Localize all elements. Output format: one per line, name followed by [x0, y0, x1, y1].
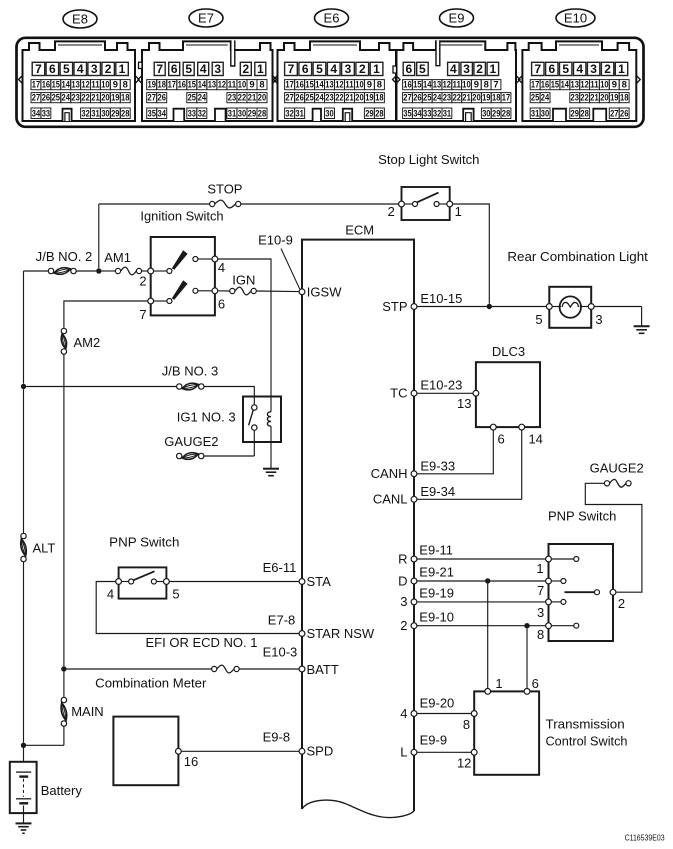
svg-text:6: 6	[548, 62, 555, 76]
svg-text:28: 28	[502, 107, 510, 118]
svg-text:15: 15	[52, 79, 60, 90]
svg-text:29: 29	[571, 107, 579, 118]
wire SPD	[181, 750, 299, 752]
svg-text:7: 7	[156, 62, 163, 76]
svg-text:31: 31	[531, 107, 539, 118]
svg-text:AM2: AM2	[74, 335, 101, 350]
svg-text:20: 20	[472, 92, 480, 103]
svg-text:GAUGE2: GAUGE2	[164, 434, 218, 449]
svg-text:33: 33	[42, 107, 50, 118]
TCS pin 12	[471, 749, 477, 755]
svg-text:18: 18	[375, 92, 383, 103]
svg-text:6: 6	[49, 62, 56, 76]
relay switch blade	[249, 410, 254, 425]
svg-text:E10-23: E10-23	[420, 377, 462, 392]
svg-text:17: 17	[531, 79, 539, 90]
svg-text:2: 2	[476, 62, 483, 76]
svg-text:22: 22	[580, 92, 588, 103]
svg-text:CANL: CANL	[373, 492, 408, 507]
svg-text:18: 18	[158, 79, 166, 90]
svg-text:13: 13	[433, 79, 441, 90]
wire IGN to IGSW	[256, 290, 299, 293]
svg-text:15: 15	[188, 79, 196, 90]
battery box	[10, 762, 37, 813]
wire 2 junction to TCS pin 6	[526, 628, 528, 688]
svg-text:34: 34	[32, 107, 41, 118]
svg-text:E10-9: E10-9	[258, 232, 293, 247]
svg-text:30: 30	[325, 107, 333, 118]
svg-text:6: 6	[497, 432, 504, 447]
svg-text:32: 32	[81, 107, 89, 118]
svg-text:12: 12	[580, 79, 588, 90]
svg-text:13: 13	[325, 79, 333, 90]
svg-text:23: 23	[571, 92, 579, 103]
svg-text:32: 32	[285, 107, 293, 118]
wire GAUGE2 horizontal	[204, 455, 254, 457]
ignition switch pin 4	[212, 256, 218, 262]
svg-text:34: 34	[158, 107, 167, 118]
svg-text:11: 11	[345, 79, 353, 90]
svg-text:15: 15	[305, 79, 313, 90]
svg-text:BATT: BATT	[307, 662, 339, 677]
svg-text:STAR NSW: STAR NSW	[307, 626, 375, 641]
svg-text:5: 5	[172, 586, 179, 601]
svg-text:4: 4	[330, 62, 337, 76]
svg-text:C116539E03: C116539E03	[625, 833, 665, 842]
svg-text:IGSW: IGSW	[307, 284, 342, 299]
svg-text:L: L	[400, 745, 407, 760]
svg-text:31: 31	[295, 107, 303, 118]
svg-text:7: 7	[493, 79, 498, 90]
DLC3 pin 14	[519, 424, 525, 430]
svg-text:10: 10	[238, 79, 246, 90]
svg-text:24: 24	[315, 92, 324, 103]
svg-text:1: 1	[119, 62, 126, 76]
wire	[102, 270, 116, 272]
svg-text:3: 3	[463, 62, 470, 76]
fuse AM1	[115, 268, 120, 273]
svg-text:3: 3	[590, 62, 597, 76]
svg-text:IG1 NO. 3: IG1 NO. 3	[177, 409, 236, 424]
svg-text:3: 3	[214, 62, 221, 76]
PNP switch right box	[549, 544, 614, 641]
wire ignition pin4 to relay coil	[218, 259, 271, 412]
wire STA	[169, 581, 299, 583]
svg-text:23: 23	[71, 92, 79, 103]
ECM terminal 4	[411, 711, 417, 717]
svg-text:26: 26	[620, 107, 628, 118]
svg-text:5: 5	[185, 62, 192, 76]
DLC3 box	[476, 362, 540, 427]
svg-text:8: 8	[463, 717, 470, 732]
svg-text:2: 2	[242, 62, 249, 76]
fuse STOP	[210, 201, 215, 206]
svg-text:18: 18	[492, 92, 500, 103]
svg-text:23: 23	[228, 92, 236, 103]
wire bottom junction horizontal	[24, 744, 64, 746]
svg-text:E6-11: E6-11	[263, 560, 297, 575]
svg-text:20: 20	[355, 92, 363, 103]
svg-text:E9-19: E9-19	[419, 586, 454, 601]
svg-text:7: 7	[288, 62, 295, 76]
wire to ignition switch pin 2	[142, 270, 148, 272]
svg-text:E6: E6	[324, 11, 340, 26]
svg-text:8: 8	[484, 79, 489, 90]
ECM terminal D	[411, 578, 417, 584]
connector E6 housing	[278, 41, 397, 121]
svg-text:E8: E8	[72, 12, 88, 27]
wire MAIN to bottom junction	[63, 726, 65, 745]
fusible link AM2	[61, 328, 66, 333]
svg-text:24: 24	[433, 92, 442, 103]
svg-text:9: 9	[612, 79, 617, 90]
svg-text:D: D	[398, 573, 407, 588]
connector E9 label ellipse	[440, 9, 474, 27]
svg-text:22: 22	[453, 92, 461, 103]
svg-text:33: 33	[188, 107, 196, 118]
wire ignition pin7 to AM2	[64, 301, 148, 328]
svg-text:4: 4	[218, 260, 225, 275]
svg-text:24: 24	[541, 92, 550, 103]
ground under IG1 NO.3 relay	[263, 468, 279, 470]
stop light switch SW1 box	[402, 187, 450, 220]
svg-text:3: 3	[345, 62, 352, 76]
battery to ground	[23, 806, 25, 824]
svg-text:Battery: Battery	[41, 783, 83, 798]
svg-text:21: 21	[345, 92, 353, 103]
ground stub	[641, 307, 643, 327]
svg-text:IGN: IGN	[232, 273, 255, 288]
svg-text:1: 1	[490, 62, 497, 76]
svg-text:STOP: STOP	[207, 181, 242, 196]
svg-text:E10-3: E10-3	[263, 645, 298, 660]
wire coil to ground	[270, 426, 272, 468]
svg-text:STA: STA	[307, 574, 332, 589]
svg-text:Rear Combination Light: Rear Combination Light	[507, 249, 648, 264]
ECM terminal 3	[411, 599, 417, 605]
svg-text:MAIN: MAIN	[71, 704, 104, 719]
svg-text:CANH: CANH	[371, 466, 408, 481]
svg-text:25: 25	[52, 92, 60, 103]
svg-text:20: 20	[258, 92, 266, 103]
svg-text:E9-34: E9-34	[420, 484, 455, 499]
svg-text:14: 14	[528, 432, 542, 447]
wire relay to GAUGE2	[253, 430, 255, 456]
ECM terminal TC	[411, 390, 417, 396]
rear combination light box	[549, 287, 591, 328]
wire CANL to DLC3 pin 14	[417, 430, 522, 499]
svg-text:12: 12	[443, 79, 451, 90]
svg-text:4: 4	[77, 62, 84, 76]
wire CANH to DLC3 pin 6	[417, 430, 493, 474]
ECM terminal IGSW	[299, 289, 305, 295]
svg-text:6: 6	[218, 297, 225, 312]
svg-text:1: 1	[618, 62, 625, 76]
svg-text:10: 10	[462, 79, 470, 90]
svg-text:2: 2	[604, 62, 611, 76]
svg-text:GAUGE2: GAUGE2	[590, 461, 644, 476]
svg-text:4: 4	[200, 62, 207, 76]
svg-text:28: 28	[258, 107, 266, 118]
wire STP to rear combination light	[417, 306, 547, 308]
svg-text:8: 8	[622, 79, 627, 90]
svg-text:17: 17	[285, 79, 293, 90]
svg-text:27: 27	[610, 107, 618, 118]
svg-text:34: 34	[413, 107, 422, 118]
svg-text:17: 17	[502, 92, 510, 103]
wire D junction to TCS pin 1	[487, 584, 489, 689]
ignition switch pin 7	[148, 298, 154, 304]
svg-text:30: 30	[482, 107, 490, 118]
svg-text:7: 7	[139, 307, 146, 322]
relay coil IG1 NO.3	[267, 412, 271, 426]
svg-text:23: 23	[443, 92, 451, 103]
PNP right pin 3	[546, 599, 552, 605]
wire stop switch to STP	[453, 204, 490, 304]
connector E8 housing	[23, 41, 136, 121]
ignition switch blade AM1-IG	[172, 250, 188, 270]
svg-text:13: 13	[71, 79, 79, 90]
fuse EFI/BATT	[212, 666, 217, 671]
ground battery	[16, 822, 32, 824]
ECM terminal STA	[299, 579, 305, 585]
connector E7 pin numbers	[154, 62, 165, 75]
svg-text:10: 10	[101, 79, 109, 90]
svg-text:6: 6	[171, 62, 178, 76]
svg-text:9: 9	[249, 79, 254, 90]
ECM terminal STAR NSW	[299, 631, 305, 637]
wire 3 to PNP pin 3	[417, 601, 546, 603]
wire left vertical upper	[23, 271, 25, 384]
svg-text:E9-11: E9-11	[419, 543, 453, 558]
PNP left pin 5	[164, 579, 170, 585]
svg-text:29: 29	[365, 107, 373, 118]
svg-text:Stop Light Switch: Stop Light Switch	[378, 152, 479, 167]
svg-text:24: 24	[62, 92, 71, 103]
svg-text:28: 28	[121, 107, 129, 118]
svg-text:4: 4	[450, 62, 457, 76]
ECM terminal 2	[411, 623, 417, 629]
svg-text:4: 4	[400, 706, 407, 721]
svg-text:12: 12	[335, 79, 343, 90]
svg-text:25: 25	[423, 92, 431, 103]
svg-text:EFI OR ECD NO. 1: EFI OR ECD NO. 1	[146, 635, 258, 650]
svg-text:J/B NO. 2: J/B NO. 2	[36, 249, 93, 264]
svg-text:6: 6	[532, 676, 539, 691]
svg-text:1: 1	[257, 62, 264, 76]
fusible link MAIN	[61, 697, 66, 702]
connector E8 label ellipse	[63, 10, 97, 28]
ECM terminal BATT	[299, 666, 305, 672]
svg-text:Ignition Switch: Ignition Switch	[140, 208, 223, 223]
svg-text:6: 6	[302, 62, 309, 76]
wire stop branch vertical	[98, 204, 100, 268]
svg-text:E10-15: E10-15	[420, 291, 462, 306]
DLC3 pin 13	[473, 390, 479, 396]
ECM terminal CANH	[411, 471, 417, 477]
svg-text:1: 1	[373, 62, 380, 76]
fusible link J/B NO. 2	[48, 268, 53, 273]
wire to battery	[23, 748, 25, 762]
svg-text:10: 10	[600, 79, 608, 90]
svg-text:E9-20: E9-20	[420, 696, 455, 711]
connector E6 pin numbers	[285, 62, 298, 75]
wire ignition pin6 to IGN fuse	[218, 290, 230, 292]
connector E7 label ellipse	[189, 9, 223, 27]
stop light switch pin 2	[399, 201, 405, 207]
svg-text:19: 19	[111, 92, 119, 103]
stop light switch pin 1	[447, 201, 453, 207]
combination meter box	[113, 717, 178, 786]
svg-text:26: 26	[42, 92, 50, 103]
svg-text:16: 16	[403, 79, 411, 90]
svg-text:20: 20	[101, 92, 109, 103]
svg-text:23: 23	[325, 92, 333, 103]
svg-text:18: 18	[121, 92, 129, 103]
svg-text:30: 30	[541, 107, 549, 118]
wire 2 to PNP pin 8	[417, 625, 546, 627]
svg-text:6: 6	[406, 62, 413, 76]
svg-text:28: 28	[580, 107, 588, 118]
svg-text:2: 2	[139, 273, 146, 288]
svg-text:25: 25	[188, 92, 196, 103]
svg-text:PNP Switch: PNP Switch	[548, 509, 616, 524]
svg-text:31: 31	[91, 107, 99, 118]
fuse IGN	[230, 288, 235, 293]
PNP right pin 1	[546, 556, 552, 562]
svg-text:14: 14	[561, 79, 570, 90]
lamp symbol	[560, 296, 581, 317]
svg-text:32: 32	[433, 107, 441, 118]
svg-text:E9-9: E9-9	[420, 732, 447, 747]
svg-text:E9-10: E9-10	[419, 610, 454, 625]
svg-text:12: 12	[81, 79, 89, 90]
svg-text:15: 15	[551, 79, 559, 90]
svg-text:14: 14	[62, 79, 71, 90]
svg-text:14: 14	[198, 79, 207, 90]
svg-text:8: 8	[377, 79, 382, 90]
svg-text:25: 25	[531, 92, 539, 103]
ECM terminal STP	[411, 304, 417, 310]
ignition switch box	[151, 237, 215, 315]
wire left vertical lower	[23, 562, 25, 743]
rear light pin 5	[546, 304, 552, 310]
TCS pin 8	[471, 711, 477, 717]
node J/B NO.3 junction	[21, 384, 26, 389]
svg-text:DLC3: DLC3	[492, 344, 525, 359]
wire rear light to ground	[594, 306, 642, 308]
svg-text:3: 3	[91, 62, 98, 76]
fusible link ALT	[21, 533, 26, 538]
svg-text:29: 29	[248, 107, 256, 118]
combination meter pin 16	[176, 748, 182, 754]
svg-text:E10: E10	[564, 11, 587, 26]
connector E7 housing	[142, 41, 273, 121]
PNP switch left box	[119, 567, 167, 598]
svg-text:32: 32	[198, 107, 206, 118]
svg-text:33: 33	[423, 107, 431, 118]
ignition switch blade AM2-IG	[172, 280, 188, 300]
svg-text:22: 22	[335, 92, 343, 103]
svg-text:11: 11	[453, 79, 461, 90]
PNP wiper blade	[565, 591, 595, 593]
svg-text:Combination Meter: Combination Meter	[95, 676, 207, 691]
svg-text:5: 5	[535, 312, 542, 327]
svg-text:10: 10	[355, 79, 363, 90]
connector E8 pin numbers	[32, 62, 45, 75]
svg-text:ALT: ALT	[33, 541, 56, 556]
svg-text:13: 13	[571, 79, 579, 90]
svg-text:12: 12	[218, 79, 226, 90]
PNP right pin 2	[610, 589, 616, 595]
wire D to PNP pin 7	[417, 580, 546, 582]
svg-text:ECM: ECM	[345, 223, 374, 238]
node junction AM1/STOP	[96, 268, 101, 273]
connector E10 housing	[522, 41, 636, 121]
node 2-wire junction	[524, 623, 529, 628]
ECM terminal SPD	[299, 748, 305, 754]
svg-text:8: 8	[259, 79, 264, 90]
svg-text:STP: STP	[382, 299, 407, 314]
svg-text:30: 30	[101, 107, 109, 118]
svg-text:1: 1	[455, 204, 462, 219]
svg-text:7: 7	[534, 62, 541, 76]
ECM terminal R	[411, 556, 417, 562]
ECM terminal CANL	[411, 496, 417, 502]
svg-text:5: 5	[419, 62, 426, 76]
connector E10 pin numbers	[532, 62, 544, 75]
svg-text:19: 19	[148, 79, 156, 90]
svg-text:21: 21	[462, 92, 470, 103]
svg-text:E7: E7	[198, 11, 214, 26]
PNP left blade	[134, 571, 155, 580]
svg-text:16: 16	[541, 79, 549, 90]
TCS pin 1	[485, 689, 491, 695]
svg-text:PNP Switch: PNP Switch	[109, 535, 179, 550]
svg-text:28: 28	[375, 107, 383, 118]
svg-text:8: 8	[537, 627, 544, 642]
svg-text:5: 5	[562, 62, 569, 76]
svg-text:26: 26	[413, 92, 421, 103]
svg-text:7: 7	[35, 62, 42, 76]
svg-text:11: 11	[228, 79, 236, 90]
svg-text:25: 25	[305, 92, 313, 103]
svg-text:26: 26	[158, 92, 166, 103]
wire battery feed to J/B NO.2	[24, 270, 49, 272]
svg-text:3: 3	[595, 312, 602, 327]
wire GAUGE2 to PNP pin 2	[585, 483, 642, 592]
svg-text:20: 20	[600, 92, 608, 103]
svg-text:2: 2	[359, 62, 366, 76]
svg-text:18: 18	[620, 92, 628, 103]
svg-text:Transmission: Transmission	[546, 717, 625, 732]
svg-text:E9: E9	[449, 11, 465, 26]
svg-text:2: 2	[618, 596, 625, 611]
wire left vertical mid	[23, 389, 25, 533]
node battery junction	[21, 743, 26, 748]
svg-text:E7-8: E7-8	[268, 613, 295, 628]
svg-text:11: 11	[91, 79, 99, 90]
svg-text:19: 19	[610, 92, 618, 103]
PNP right pin 7	[546, 578, 552, 584]
relay IG1 NO.3 box	[243, 397, 281, 443]
ECM box	[302, 240, 414, 811]
svg-text:17: 17	[32, 79, 40, 90]
ECM terminal L	[411, 749, 417, 755]
svg-text:SPD: SPD	[307, 744, 334, 759]
wire TC to DLC3	[417, 392, 473, 394]
ground rear combination light	[634, 325, 650, 327]
